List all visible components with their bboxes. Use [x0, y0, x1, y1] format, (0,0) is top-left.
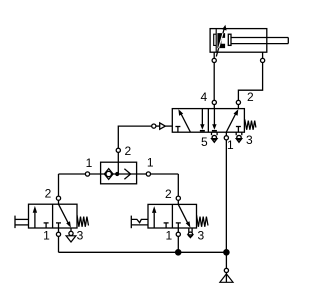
svg-text:1: 1 — [86, 156, 93, 170]
svg-text:4: 4 — [200, 90, 207, 104]
svg-text:2: 2 — [124, 144, 131, 158]
svg-text:2: 2 — [165, 187, 172, 201]
svg-text:2: 2 — [45, 187, 52, 201]
svg-text:3: 3 — [246, 133, 253, 147]
svg-text:1: 1 — [43, 228, 50, 242]
svg-text:5: 5 — [201, 135, 208, 149]
svg-text:2: 2 — [247, 90, 254, 104]
svg-text:1: 1 — [147, 155, 154, 169]
svg-text:3: 3 — [198, 229, 205, 243]
svg-text:1: 1 — [227, 138, 234, 152]
svg-text:1: 1 — [166, 228, 173, 242]
svg-text:3: 3 — [77, 228, 84, 242]
